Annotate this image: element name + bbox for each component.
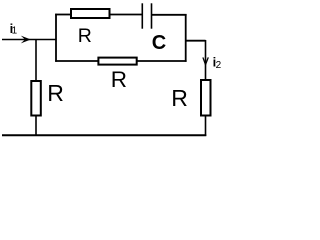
- resistor R1 (top parallel branch): [71, 9, 110, 18]
- wire: R4 bottom lead to bottom rail: [205, 116, 207, 137]
- wire: R1 to capacitor left plate: [110, 14, 143, 16]
- svg-text:R: R: [171, 85, 188, 111]
- capacitor C (top parallel branch): [142, 3, 151, 28]
- wire: top rail, riser to R1: [55, 14, 71, 16]
- wire: input lead carrying i1: [2, 39, 56, 41]
- wire: output stub from node B toward i2: [186, 40, 206, 42]
- node B: right riser x=185.7 from top rail down to middle rail: [185, 14, 187, 62]
- node A: input junction, vertical riser x=56 between top rail and middle rail: [55, 14, 57, 62]
- current arrow i2 (down): [203, 57, 208, 64]
- current arrow i1: [21, 36, 31, 44]
- wire: R3 bottom lead to bottom rail: [35, 115, 37, 136]
- svg-text:R: R: [111, 67, 127, 92]
- wire: capacitor right plate to top-right corner: [152, 14, 187, 16]
- svg-text:R: R: [47, 80, 64, 106]
- wire: R2 to node B: [137, 60, 187, 62]
- svg-text:R: R: [78, 25, 92, 47]
- label i1: [10, 21, 18, 37]
- resistor R2 (middle series branch): [98, 58, 136, 65]
- resistor R4 (right shunt branch): [201, 80, 211, 116]
- wire: middle rail, node A to R2: [55, 60, 98, 62]
- svg-text:1: 1: [12, 26, 18, 37]
- wire: output drop x=205.5 into R4: [205, 40, 207, 80]
- label i2: [213, 54, 222, 70]
- svg-text:2: 2: [216, 60, 222, 71]
- resistor R3 (left shunt branch): [31, 81, 41, 116]
- svg-text:C: C: [152, 32, 166, 54]
- wire: bottom return rail: [2, 134, 206, 136]
- wire: left shunt branch drop x=36 from input wire: [35, 40, 37, 82]
